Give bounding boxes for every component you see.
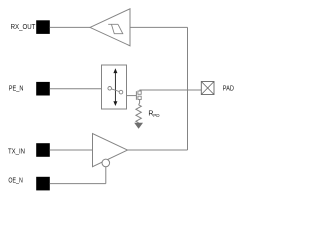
wire S1 to transistor gate — [127, 95, 137, 97]
double-headed arrow in S1 — [114, 73, 116, 102]
switch blade — [112, 89, 120, 92]
wire bubble down — [105, 167, 107, 184]
resistor RPD zigzag — [136, 105, 141, 123]
wire driver output to bus — [128, 149, 188, 151]
pin OE_N — [36, 177, 50, 191]
transistor Q1 drain contact — [138, 91, 141, 94]
wire pin OE_N to bubble — [50, 183, 106, 185]
switch box S1 — [102, 65, 127, 109]
wire bus vertical — [187, 27, 189, 150]
svg-text:PE_N: PE_N — [9, 85, 24, 92]
wire pin RX_OUT to receiver output — [50, 26, 90, 28]
wire pin TX_IN to driver input — [50, 149, 93, 151]
ground arrow — [134, 123, 143, 129]
switch contact left circle — [108, 87, 112, 91]
pin RX_OUT — [36, 20, 50, 34]
transistor Q1 source contact — [138, 96, 141, 99]
wire pin PE_N to switch box — [50, 88, 102, 90]
svg-text:PD: PD — [153, 113, 160, 118]
enable bubble on U2 — [102, 159, 110, 167]
pin TX_IN — [36, 143, 50, 157]
wire Q1 source to resistor — [139, 100, 140, 105]
svg-text:OE_N: OE_N — [8, 177, 22, 184]
hysteresis symbol inside U1 — [108, 24, 123, 33]
transistor Q1 gate bar — [135, 91, 137, 100]
pad cell X1 — [201, 82, 214, 95]
wire Q1 drain up to pad net — [140, 90, 201, 91]
svg-text:RX_OUT: RX_OUT — [11, 24, 36, 31]
wire receiver input to bus — [130, 26, 188, 28]
svg-text:TX_IN: TX_IN — [8, 148, 25, 155]
receiver buffer U1 (schmitt trigger, points left) — [90, 9, 130, 46]
switch contact right circle — [119, 90, 123, 94]
driver buffer U2 (tri-state, points right) — [93, 134, 128, 167]
pin PE_N — [36, 82, 50, 96]
svg-text:PAD: PAD — [223, 85, 234, 92]
